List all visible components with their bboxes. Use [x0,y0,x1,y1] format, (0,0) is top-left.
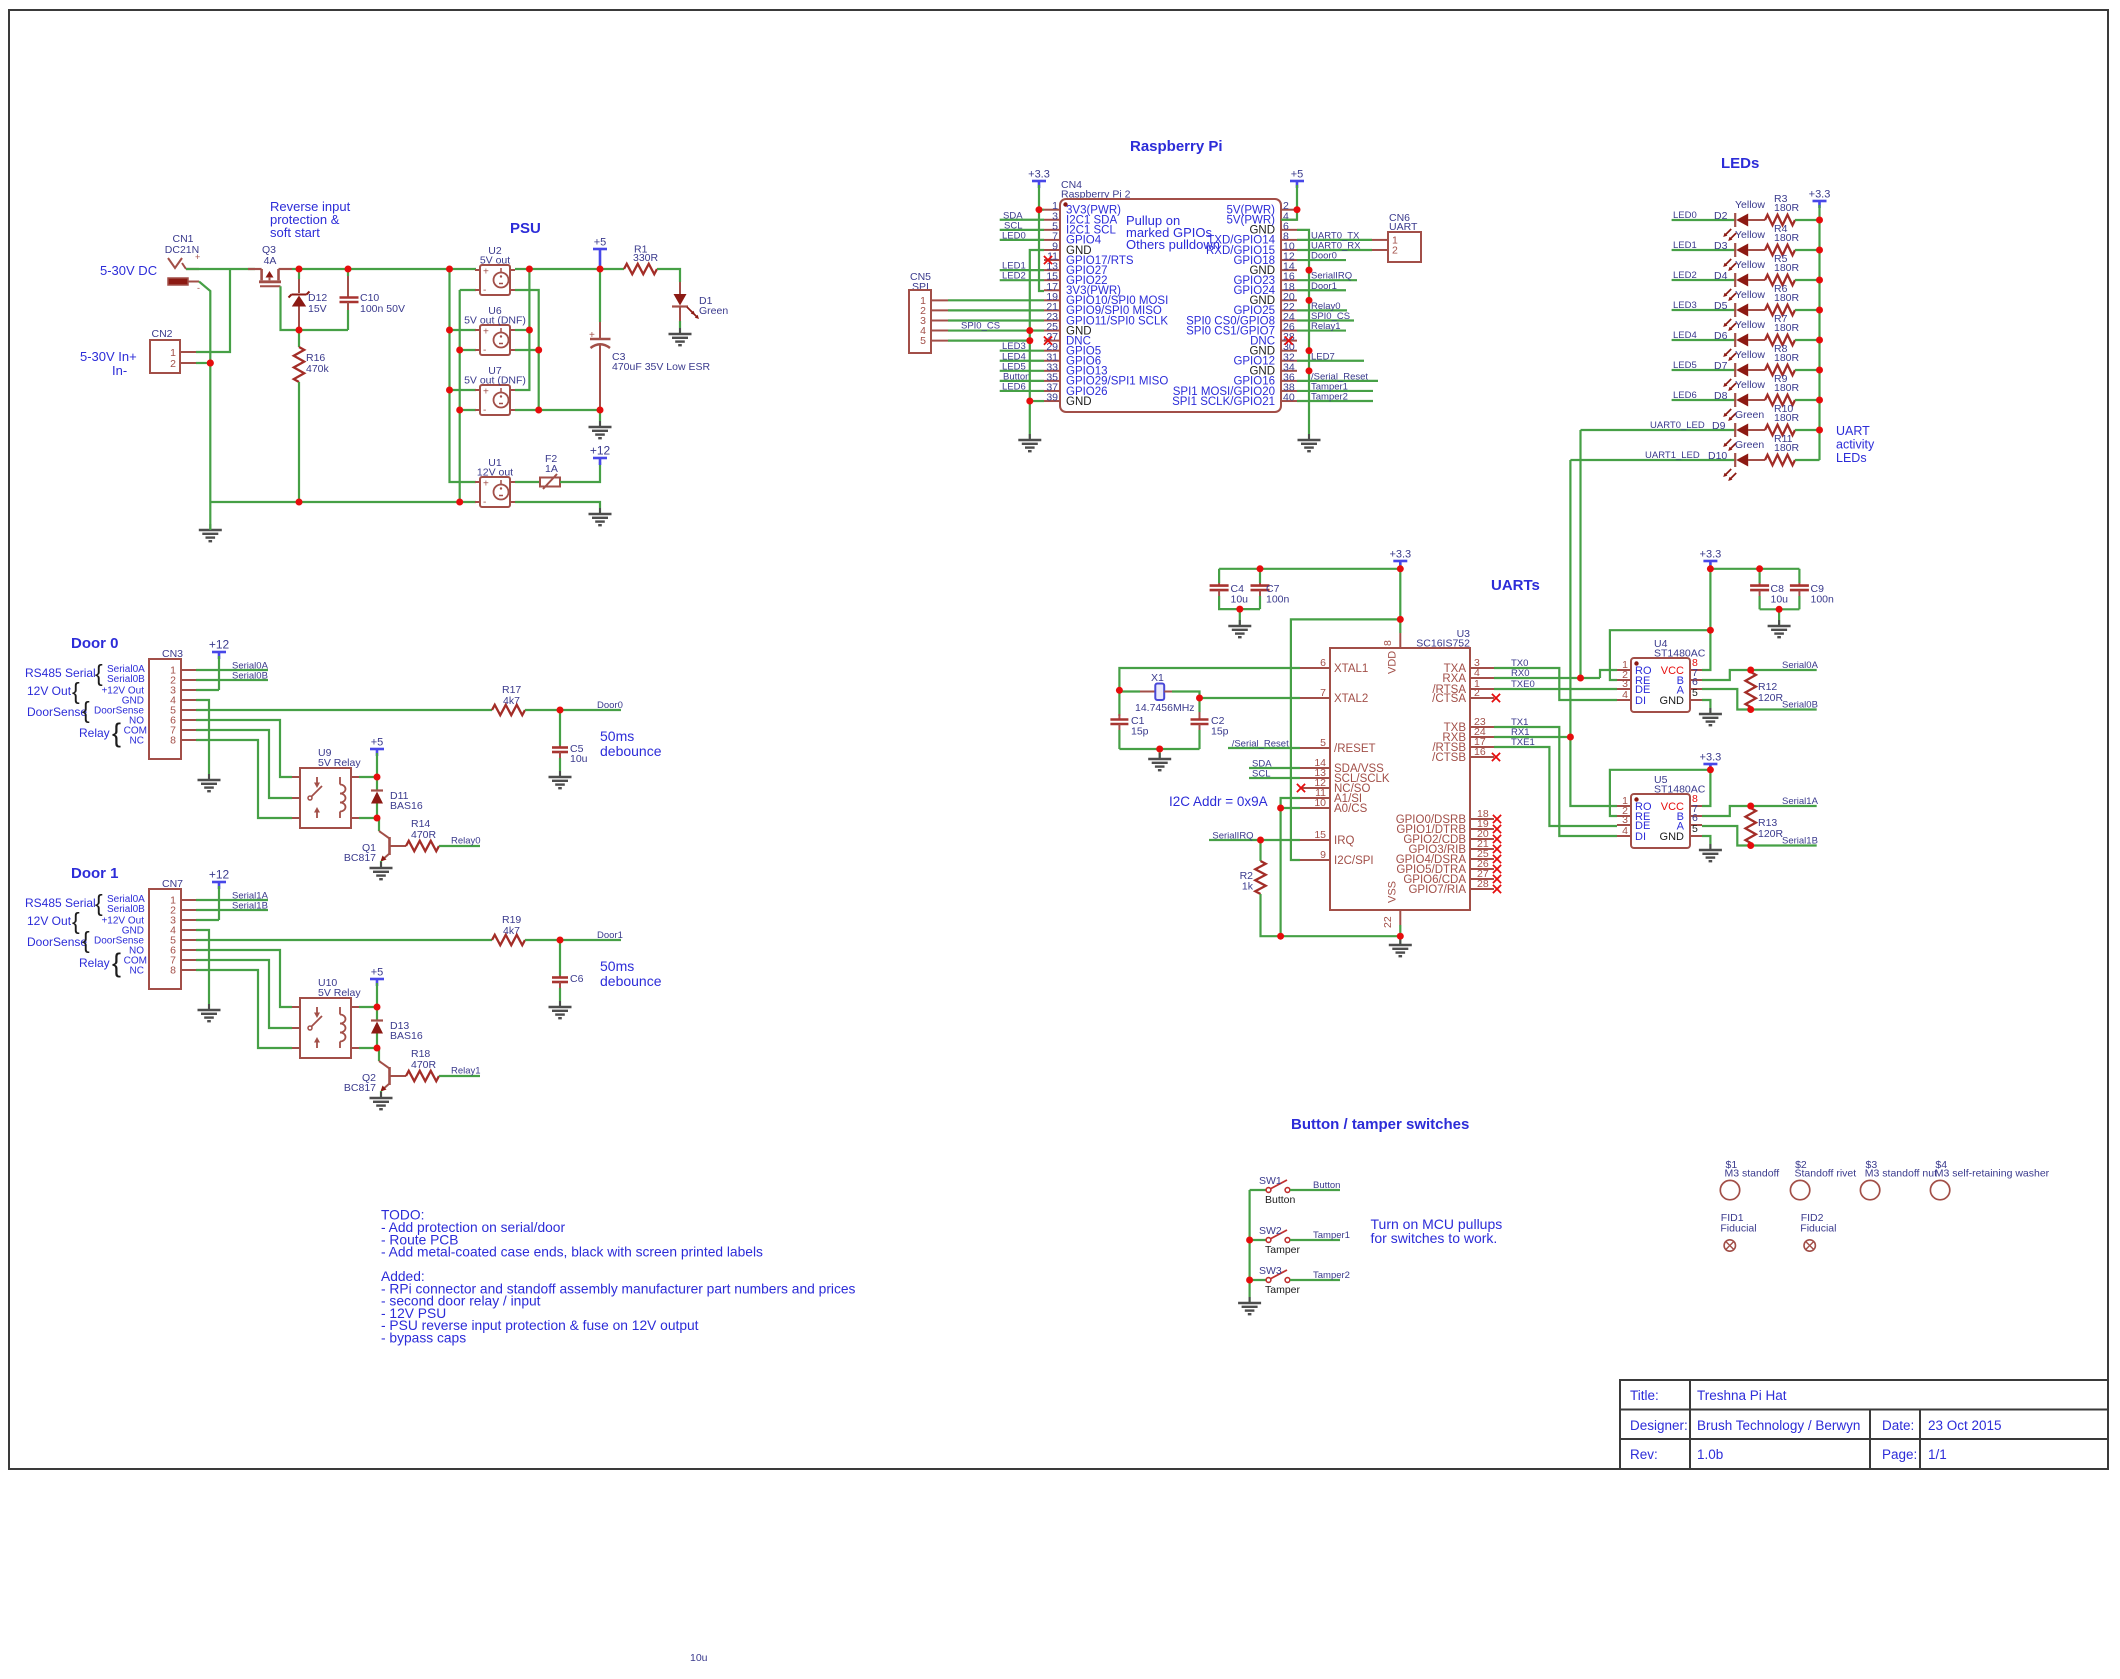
svg-text:Serial0B: Serial0B [107,904,145,915]
svg-text:PSU: PSU [510,220,541,237]
svg-text:+: + [195,252,200,262]
svg-text:SCL: SCL [1252,769,1270,780]
svg-text:2: 2 [170,358,176,370]
svg-text:UART1_LED: UART1_LED [1645,450,1700,461]
svg-text:180R: 180R [1774,322,1800,334]
svg-text:+5: +5 [1291,169,1304,181]
svg-text:NC: NC [130,736,144,747]
svg-text:BAS16: BAS16 [390,1030,423,1042]
svg-text:-: - [483,285,486,296]
svg-text:Green: Green [1735,439,1764,451]
svg-text:{: { [112,948,121,978]
svg-text:debounce: debounce [600,973,662,989]
svg-text:{: { [95,890,103,916]
svg-text:Tamper: Tamper [1265,1244,1301,1256]
svg-text:100n 50V: 100n 50V [360,303,405,315]
svg-text:39: 39 [1046,392,1058,404]
svg-text:VDD: VDD [1387,651,1399,674]
svg-text:soft start: soft start [270,225,320,240]
svg-text:D5: D5 [1714,300,1728,312]
svg-text:D3: D3 [1714,240,1728,252]
svg-text:100n: 100n [1266,594,1290,606]
svg-text:Yellow: Yellow [1735,229,1765,241]
svg-text:470uF 35V Low ESR: 470uF 35V Low ESR [612,361,710,373]
svg-text:12V out: 12V out [477,467,513,479]
svg-text:Standoff rivet: Standoff rivet [1795,1168,1857,1180]
svg-text:{: { [72,908,80,934]
svg-text:+3.3: +3.3 [1389,549,1411,561]
svg-text:+: + [483,267,489,278]
svg-text:4: 4 [1622,689,1628,701]
svg-text:XTAL1: XTAL1 [1334,663,1368,675]
svg-text:1/1: 1/1 [1928,1447,1947,1462]
svg-text:Yellow: Yellow [1735,289,1765,301]
svg-text:/CTSA: /CTSA [1432,693,1466,705]
svg-text:SerialIRQ: SerialIRQ [1212,831,1253,842]
svg-text:DI: DI [1635,831,1646,843]
svg-text:Green: Green [699,305,728,317]
svg-text:Relay0: Relay0 [451,836,481,847]
svg-text:M3 self-retaining washer: M3 self-retaining washer [1935,1168,2050,1180]
svg-text:SPI1 SCLK/GPIO21: SPI1 SCLK/GPIO21 [1172,396,1275,408]
svg-text:Yellow: Yellow [1735,319,1765,331]
svg-text:470R: 470R [411,829,437,841]
svg-text:+: + [483,479,489,490]
svg-text:LED2: LED2 [1002,271,1026,282]
svg-text:LED0: LED0 [1673,210,1697,221]
svg-text:Tamper2: Tamper2 [1313,1270,1350,1281]
svg-text:+5: +5 [594,237,607,249]
svg-text:D4: D4 [1714,270,1728,282]
svg-text:23 Oct 2015: 23 Oct 2015 [1928,1418,2002,1433]
svg-text:SPI: SPI [912,281,929,293]
svg-text:5: 5 [1692,823,1698,835]
svg-text:LED5: LED5 [1673,360,1697,371]
svg-text:180R: 180R [1774,412,1800,424]
svg-text:BC817: BC817 [344,852,376,864]
svg-text:SW3: SW3 [1259,1265,1282,1277]
svg-text:GND: GND [1660,695,1685,707]
svg-text:5V out: 5V out [480,255,510,267]
svg-text:6: 6 [1320,657,1326,669]
svg-text:Title:: Title: [1630,1388,1659,1403]
svg-text:BAS16: BAS16 [390,800,423,812]
svg-text:UARTs: UARTs [1491,577,1540,594]
svg-text:+12: +12 [590,444,611,458]
svg-text:I2C/SPI: I2C/SPI [1334,855,1374,867]
svg-text:TXE0: TXE0 [1511,679,1535,690]
svg-text:XTAL2: XTAL2 [1334,693,1368,705]
svg-text:DI: DI [1635,695,1646,707]
svg-text:Serial1B: Serial1B [232,901,268,912]
svg-text:470k: 470k [306,363,330,375]
svg-text:180R: 180R [1774,442,1800,454]
svg-text:4: 4 [1622,825,1628,837]
svg-text:5: 5 [1320,737,1326,749]
svg-text:DoorSense: DoorSense [27,935,87,949]
svg-text:470R: 470R [411,1059,437,1071]
svg-text:RX0: RX0 [1511,668,1529,679]
svg-text:LED1: LED1 [1673,240,1697,251]
svg-text:ST1480AC: ST1480AC [1654,784,1706,796]
svg-text:+3.3: +3.3 [1028,169,1050,181]
svg-text:LED6: LED6 [1002,381,1026,392]
svg-text:GPIO7/RIA: GPIO7/RIA [1408,884,1466,896]
svg-text:7: 7 [1320,687,1326,699]
svg-text:DoorSense: DoorSense [27,705,87,719]
svg-text:I2C Addr = 0x9A: I2C Addr = 0x9A [1169,794,1268,809]
svg-text:Tamper1: Tamper1 [1313,1230,1350,1241]
svg-text:180R: 180R [1774,202,1800,214]
svg-text:5: 5 [920,335,926,347]
svg-text:Relay1: Relay1 [451,1066,481,1077]
svg-text:+: + [483,327,489,338]
svg-text:8: 8 [1382,640,1394,646]
svg-text:5: 5 [1692,687,1698,699]
svg-text:Yellow: Yellow [1735,379,1765,391]
svg-text:10u: 10u [1771,594,1789,606]
svg-text:8: 8 [170,965,176,977]
svg-text:1k: 1k [1242,881,1254,893]
svg-text:/RESET: /RESET [1334,743,1376,755]
svg-text:100n: 100n [1811,594,1835,606]
svg-text:UART0_LED: UART0_LED [1650,420,1705,431]
svg-text:+3.3: +3.3 [1700,549,1722,561]
svg-text:Treshna Pi Hat: Treshna Pi Hat [1697,1388,1787,1403]
svg-text:Date:: Date: [1882,1418,1914,1433]
svg-text:M3 standoff nut: M3 standoff nut [1865,1168,1937,1180]
svg-text:C6: C6 [570,973,584,985]
svg-text:Designer:: Designer: [1630,1418,1688,1433]
svg-text:Relay: Relay [79,956,110,970]
svg-text:Door0: Door0 [1311,251,1337,262]
svg-text:+: + [483,387,489,398]
svg-text:RS485 Serial: RS485 Serial [25,666,96,680]
svg-text:- bypass caps: - bypass caps [381,1330,466,1345]
svg-text:/Serial_Reset: /Serial_Reset [1232,739,1289,750]
svg-text:9: 9 [1320,849,1326,861]
svg-text:180R: 180R [1774,382,1800,394]
svg-text:Fiducial: Fiducial [1800,1223,1836,1235]
svg-text:Brush Technology / Berwyn: Brush Technology / Berwyn [1697,1418,1860,1433]
svg-text:X1: X1 [1151,672,1164,684]
svg-text:22: 22 [1382,916,1394,928]
svg-text:D9: D9 [1712,420,1726,432]
svg-text:M3 standoff: M3 standoff [1725,1168,1780,1180]
svg-text:Green: Green [1735,409,1764,421]
svg-text:RS485 Serial: RS485 Serial [25,896,96,910]
svg-text:-: - [197,283,200,293]
svg-text:5V out (DNF): 5V out (DNF) [464,315,526,327]
svg-text:Serial0B: Serial0B [1782,700,1818,711]
svg-text:+12: +12 [209,868,230,882]
svg-text:50ms: 50ms [600,958,634,974]
svg-text:Tamper2: Tamper2 [1311,392,1348,403]
svg-text:SPI0_CS: SPI0_CS [961,321,1000,332]
svg-text:LEDs: LEDs [1721,155,1759,172]
svg-text:D10: D10 [1708,450,1727,462]
svg-text:1.0b: 1.0b [1697,1447,1723,1462]
svg-text:activity: activity [1836,438,1875,452]
svg-text:BC817: BC817 [344,1082,376,1094]
svg-text:D2: D2 [1714,210,1728,222]
svg-text:4A: 4A [264,255,277,267]
svg-text:IRQ: IRQ [1334,835,1355,847]
svg-text:Page:: Page: [1882,1447,1917,1462]
svg-text:Yellow: Yellow [1735,349,1765,361]
svg-text:330R: 330R [633,252,659,264]
svg-text:Door1: Door1 [1311,281,1337,292]
svg-text:120R: 120R [1758,828,1784,840]
svg-text:Button: Button [1313,1180,1340,1191]
svg-text:for switches to work.: for switches to work. [1371,1230,1498,1246]
svg-text:Door0: Door0 [597,700,623,711]
svg-text:Serial0B: Serial0B [232,671,268,682]
svg-text:28: 28 [1477,878,1489,890]
svg-text:Yellow: Yellow [1735,259,1765,271]
svg-text:Tamper: Tamper [1265,1284,1301,1296]
svg-text:1A: 1A [545,463,558,475]
svg-text:180R: 180R [1774,352,1800,364]
svg-text:+5: +5 [371,967,384,979]
svg-text:Door 1: Door 1 [71,865,119,882]
svg-text:15p: 15p [1211,726,1229,738]
svg-text:Door 0: Door 0 [71,635,119,652]
svg-text:+3.3: +3.3 [1700,752,1722,764]
svg-text:A0/CS: A0/CS [1334,803,1368,815]
svg-text:+3.3: +3.3 [1809,189,1831,201]
svg-text:Relay: Relay [79,726,110,740]
svg-text:{: { [112,718,121,748]
svg-text:UART: UART [1836,424,1870,438]
svg-text:120R: 120R [1758,692,1784,704]
svg-text:LED3: LED3 [1673,300,1697,311]
svg-text:SW2: SW2 [1259,1225,1282,1237]
svg-text:-: - [483,405,486,416]
svg-text:Door1: Door1 [597,930,623,941]
svg-text:LED7: LED7 [1311,351,1335,362]
svg-text:5-30V DC: 5-30V DC [100,263,157,278]
svg-text:debounce: debounce [600,743,662,759]
svg-text:8: 8 [170,735,176,747]
svg-text:5V out (DNF): 5V out (DNF) [464,375,526,387]
svg-text:180R: 180R [1774,262,1800,274]
svg-text:40: 40 [1283,392,1295,404]
svg-text:CN2: CN2 [151,328,172,340]
svg-text:2: 2 [1474,687,1480,699]
svg-text:ST1480AC: ST1480AC [1654,648,1706,660]
svg-text:15p: 15p [1131,726,1149,738]
svg-text:- Add metal-coated case ends,: - Add metal-coated case ends, black with… [381,1245,763,1260]
svg-text:10: 10 [1314,797,1326,809]
svg-text:GND: GND [1066,396,1092,408]
svg-text:LED6: LED6 [1673,390,1697,401]
svg-text:LEDs: LEDs [1836,451,1867,465]
svg-text:D7: D7 [1714,360,1728,372]
svg-text:16: 16 [1474,746,1486,758]
svg-text:10u: 10u [1231,594,1249,606]
svg-text:Button: Button [1265,1194,1296,1206]
svg-text:Fiducial: Fiducial [1720,1223,1756,1235]
svg-text:180R: 180R [1774,232,1800,244]
svg-text:12V Out: 12V Out [27,914,72,928]
svg-text:Raspberry Pi: Raspberry Pi [1130,138,1223,155]
svg-text:14.7456MHz: 14.7456MHz [1135,702,1195,714]
svg-text:Others pulldown: Others pulldown [1126,237,1220,252]
svg-text:-: - [483,345,486,356]
svg-text:LED2: LED2 [1673,270,1697,281]
svg-text:LED4: LED4 [1673,330,1697,341]
svg-text:Yellow: Yellow [1735,199,1765,211]
svg-text:LED0: LED0 [1002,230,1026,241]
svg-text:{: { [95,660,103,686]
svg-text:180R: 180R [1774,292,1800,304]
svg-text:D6: D6 [1714,330,1728,342]
svg-text:NC: NC [130,966,144,977]
svg-text:{: { [82,697,90,723]
svg-text:50ms: 50ms [600,728,634,744]
svg-text:10u: 10u [570,753,588,765]
svg-text:D8: D8 [1714,390,1728,402]
svg-text:15V: 15V [308,303,327,315]
svg-text:Serial1A: Serial1A [1782,796,1819,807]
svg-text:Serial0B: Serial0B [107,674,145,685]
svg-text:+12: +12 [209,638,230,652]
svg-text:5-30V In+: 5-30V In+ [80,349,137,364]
svg-text:In-: In- [112,363,127,378]
svg-text:/CTSB: /CTSB [1432,752,1466,764]
svg-text:-: - [483,497,486,508]
svg-text:{: { [82,927,90,953]
svg-text:VSS: VSS [1387,881,1399,903]
svg-text:{: { [72,678,80,704]
svg-text:15: 15 [1314,829,1326,841]
svg-text:10u: 10u [690,1652,708,1664]
svg-text:Relay1: Relay1 [1311,321,1341,332]
svg-text:Serial1B: Serial1B [1782,836,1818,847]
svg-text:12V Out: 12V Out [27,684,72,698]
svg-text:TXE1: TXE1 [1511,737,1535,748]
svg-text:GND: GND [1660,831,1685,843]
svg-text:Serial0A: Serial0A [1782,660,1819,671]
svg-text:Rev:: Rev: [1630,1447,1658,1462]
svg-text:SW1: SW1 [1259,1175,1282,1187]
svg-text:Button / tamper switches: Button / tamper switches [1291,1116,1469,1133]
svg-text:2: 2 [1392,244,1398,256]
svg-text:+5: +5 [371,737,384,749]
